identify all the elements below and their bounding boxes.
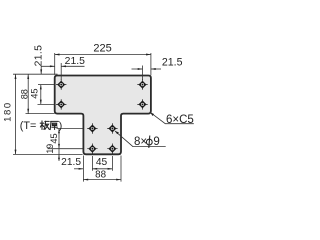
hole H5 phi9 [87, 123, 97, 133]
wire ext right plate edge up [150, 53, 152, 75]
leader 6xC5 [150, 112, 194, 123]
svg-text:(T=: (T= [20, 120, 37, 132]
wire ext stem right edge down [120, 156, 122, 182]
arrow 88 left up [27, 74, 29, 79]
arrow 225 right [146, 54, 151, 56]
arrow leader 6xC5 [150, 112, 154, 116]
kanji atsu (thickness) [50, 121, 58, 129]
hole H7 phi9 [87, 144, 97, 154]
wire ext left plate edge up [54, 53, 56, 75]
arrow 45 left up [40, 85, 42, 90]
dimension line 45/19 stem chain [58, 129, 60, 162]
wire ext stem row1 left [57, 128, 83, 130]
dimension line 88 left [27, 74, 29, 113]
arrow 225 left [55, 54, 60, 56]
svg-text:225: 225 [93, 42, 111, 54]
svg-text:8×: 8× [134, 136, 147, 148]
arrow 88 left down [27, 109, 29, 114]
svg-text:21.5: 21.5 [34, 45, 45, 67]
svg-text:45: 45 [96, 157, 108, 168]
arrow stem 19 up-point [58, 154, 60, 159]
dimension tail 21.5 top-left outer [41, 66, 55, 74]
dimension line 45 bottom [92, 168, 112, 170]
arrow 21.5 TL left-point [61, 65, 66, 67]
dimension line 88 bottom [83, 179, 121, 181]
arrow 45 left down [40, 100, 42, 105]
hole H4 phi9 [137, 99, 147, 109]
dimension line 180 left [15, 74, 17, 154]
svg-text:9: 9 [153, 136, 159, 148]
arrow 21.5 TL right-point [50, 65, 55, 67]
hole H8 phi9 [107, 144, 117, 154]
dimension line 225 [55, 54, 151, 56]
svg-text:19: 19 [45, 144, 55, 154]
wire ext hole row2 left [38, 103, 55, 105]
wire ext top edge [13, 73, 58, 75]
svg-text:21.5: 21.5 [162, 56, 183, 68]
dimension tail 21.5 bottom [74, 168, 83, 170]
hole H6 phi9 [107, 123, 117, 133]
hole H1 phi9 [56, 79, 66, 89]
hole H3 phi9 [137, 79, 147, 89]
wire ext stem col1 down [91, 156, 93, 171]
wire ext stem left edge down [82, 156, 84, 182]
kanji ita (board) [40, 121, 58, 130]
wire ext stem bottom left [13, 153, 83, 155]
arrow 21.5 TR left-point [151, 68, 156, 70]
svg-text:): ) [59, 120, 63, 132]
arrow 180 up [15, 74, 17, 79]
arrow 88 bottom right-point [116, 179, 121, 181]
svg-text:45: 45 [29, 88, 39, 98]
arrow stem 45 up [58, 129, 60, 134]
wire ext stem row2 left [48, 148, 83, 150]
svg-text:21.5: 21.5 [65, 56, 85, 67]
svg-text:88: 88 [19, 89, 29, 99]
svg-text:180: 180 [3, 101, 14, 122]
wire ext stem col2 down [111, 156, 113, 171]
arrow 21.5 TR right-point [138, 68, 143, 70]
arrow 21.5 bottom right-point [79, 168, 84, 170]
dimension line 45 left [40, 85, 42, 105]
dimension tails 21.5 top-right [132, 68, 143, 70]
arrow 180 down [15, 150, 17, 155]
svg-text:21.5: 21.5 [61, 157, 81, 168]
arrow 45 bottom right-point [108, 168, 113, 170]
arrow 45 bottom left-point [92, 168, 97, 170]
dimension tail 21.5 top-left inner [61, 65, 84, 67]
arrow 88 bottom left-point [83, 179, 88, 181]
wire ext bar bottom left [26, 113, 55, 115]
svg-text:6×C5: 6×C5 [166, 114, 194, 126]
wire ext hole col1 up [60, 63, 62, 80]
leader 8xphi9 [115, 131, 166, 147]
arrow leader 8xphi9 [115, 131, 119, 134]
plate body (T-shaped) [55, 76, 151, 155]
hole H2 phi9 [56, 99, 66, 109]
arrow stem 45 down [58, 144, 60, 149]
wire ext hole col4 up [142, 66, 144, 81]
svg-text:88: 88 [95, 170, 106, 181]
svg-text:45: 45 [49, 133, 59, 143]
wire ext hole row1 left [38, 84, 54, 86]
arrow 21.5 TL down-point [40, 69, 42, 74]
